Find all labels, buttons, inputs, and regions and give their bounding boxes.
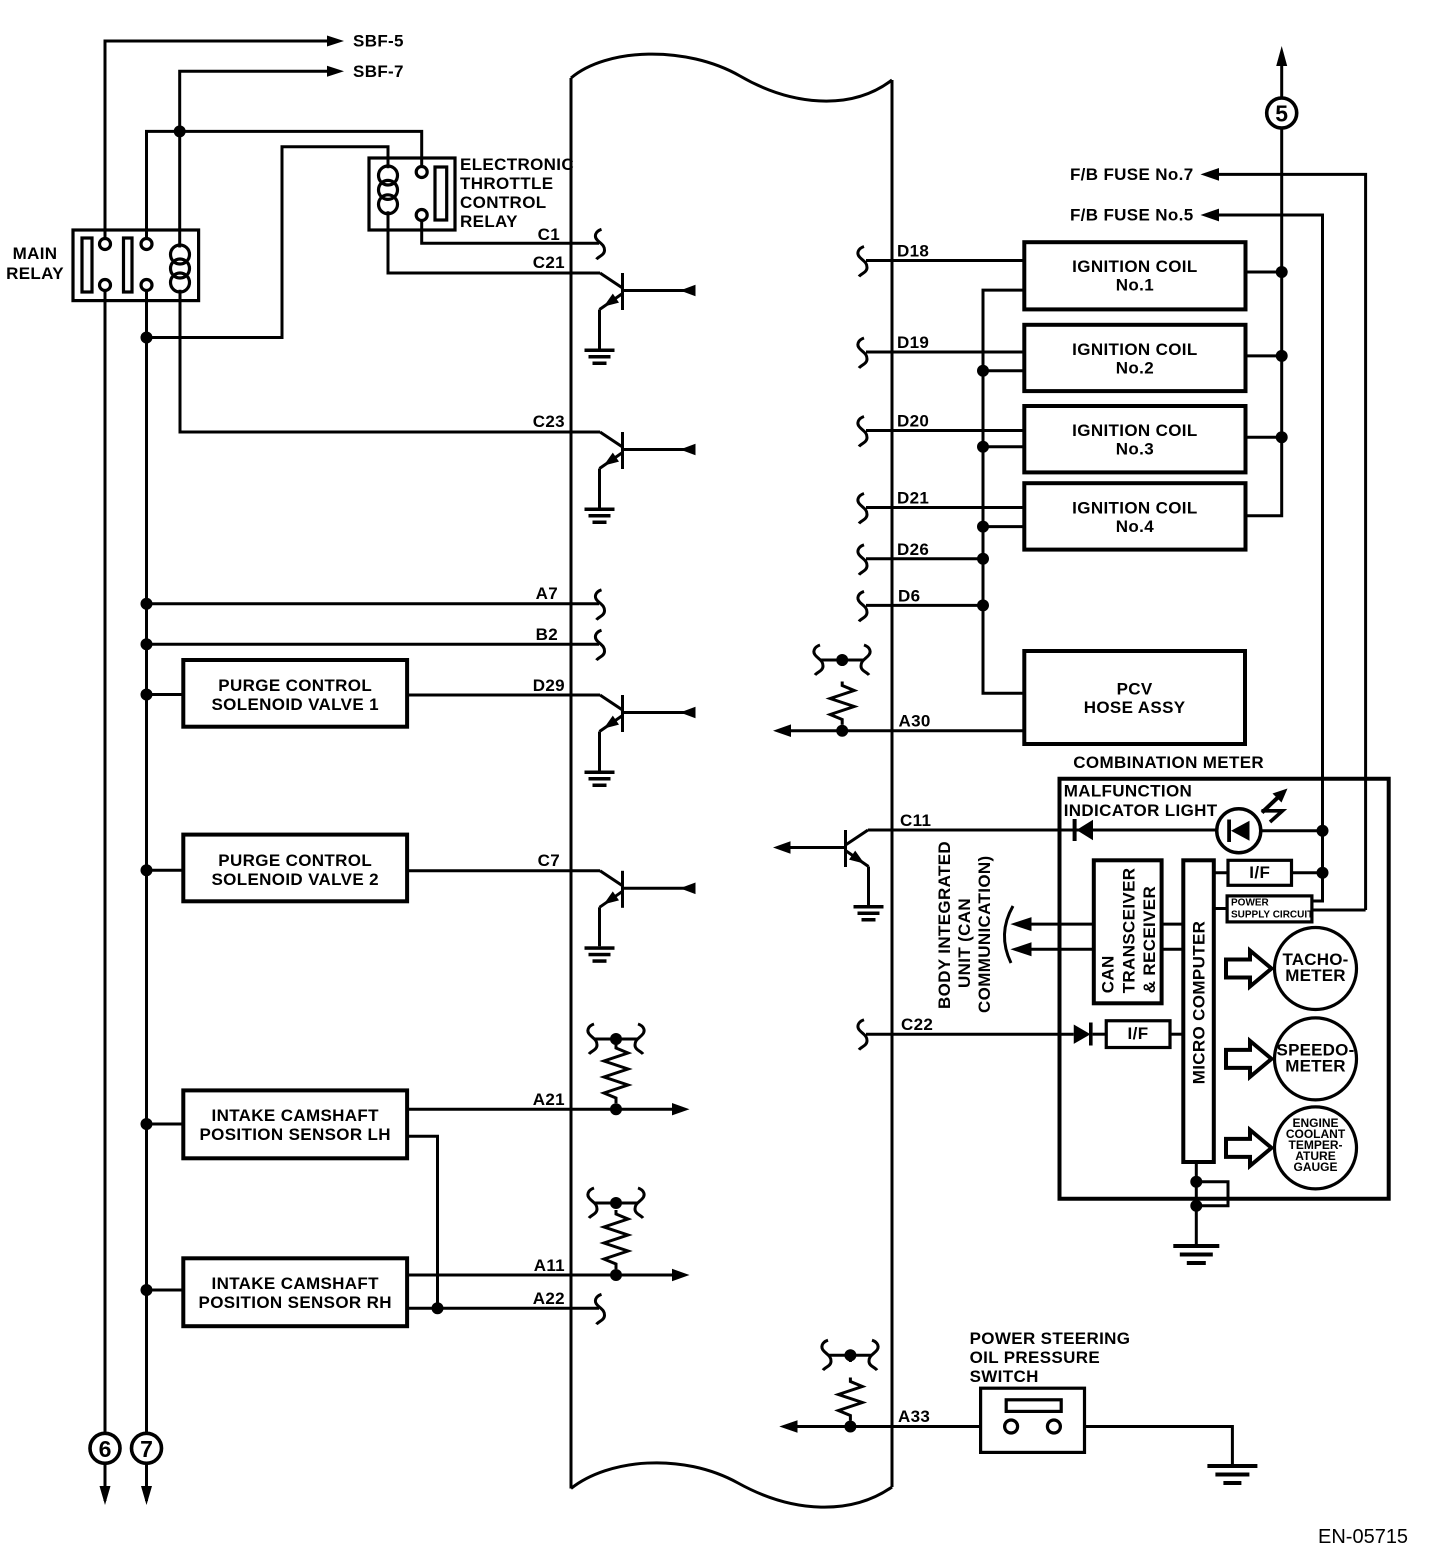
connector squiggle A21 left bbox=[588, 1024, 597, 1054]
wire coil3 output bbox=[1246, 436, 1282, 439]
svg-text:No.1: No.1 bbox=[1116, 276, 1154, 295]
wire coil2 output bbox=[1246, 354, 1282, 357]
ground of Q-C7 bbox=[585, 946, 615, 963]
junction dot R-A33 top bbox=[844, 1349, 856, 1361]
connector squiggle A30 right bbox=[861, 645, 870, 675]
wire C22 bbox=[866, 1033, 1074, 1036]
arrow F/B FUSE No.5 bbox=[1201, 209, 1220, 222]
wire branch to ETC relay coil bbox=[147, 147, 389, 338]
wire camshaft LH second output bbox=[407, 1136, 437, 1308]
pin switch right bbox=[1047, 1420, 1060, 1433]
box PURGE CONTROL SOLENOID VALVE 2 bbox=[183, 835, 407, 902]
junction dot coil2 common bbox=[977, 365, 989, 377]
svg-text:UNIT (CAN: UNIT (CAN bbox=[955, 898, 974, 988]
svg-text:POWER: POWER bbox=[1231, 898, 1270, 909]
svg-text:B2: B2 bbox=[536, 625, 558, 644]
wire F/B FUSE No.5 bbox=[1218, 215, 1323, 831]
box PURGE CONTROL SOLENOID VALVE 1 bbox=[183, 660, 407, 727]
wire coil common feed bbox=[983, 290, 1024, 693]
arrow CAN low bbox=[1010, 942, 1031, 956]
svg-text:C21: C21 bbox=[533, 253, 565, 272]
connector squiggle C1 bbox=[595, 229, 604, 259]
junction dot coil2 bus bbox=[1276, 350, 1288, 362]
svg-text:No.3: No.3 bbox=[1116, 440, 1154, 459]
wire diode to I/F bbox=[1093, 1033, 1107, 1036]
wire D19 bbox=[866, 351, 1024, 354]
wire to camshaft sensor LH bbox=[147, 1123, 184, 1126]
junction dot node SBF-7/coil bbox=[174, 125, 186, 137]
wire supply down to power circuit bbox=[1312, 873, 1323, 901]
junction dot D26 bbox=[977, 553, 989, 565]
svg-text:POWER STEERING: POWER STEERING bbox=[970, 1329, 1131, 1348]
ground of Q-C11 bbox=[854, 905, 884, 922]
svg-text:SWITCH: SWITCH bbox=[970, 1367, 1039, 1386]
wire R-A30 top bar bbox=[821, 660, 863, 666]
wire R-A11 top bar bbox=[595, 1202, 637, 1205]
wire CAN to microcomputer upper bbox=[1162, 923, 1184, 926]
wire CAN to microcomputer lower bbox=[1162, 948, 1184, 951]
wire A21 bbox=[407, 1108, 673, 1111]
box INTAKE CAMSHAFT POSITION SENSOR LH bbox=[183, 1090, 407, 1158]
svg-text:SBF-5: SBF-5 bbox=[353, 32, 404, 51]
arrow A30 out bbox=[773, 724, 791, 737]
junction dot micro ground upper bbox=[1190, 1176, 1202, 1188]
wire B2 bbox=[147, 643, 600, 646]
pin main relay top-right bbox=[141, 239, 152, 250]
junction dot R-A21 top bbox=[610, 1033, 622, 1045]
wire A33 bbox=[797, 1425, 981, 1428]
junction dot A21 pull-up bbox=[610, 1103, 622, 1115]
junction dot coil3 bus bbox=[1276, 431, 1288, 443]
gauge TACHOMETER bbox=[1275, 928, 1357, 1010]
box MICRO COMPUTER bbox=[1183, 860, 1214, 1162]
relay MAIN RELAY box bbox=[73, 230, 199, 301]
svg-text:D29: D29 bbox=[533, 676, 565, 695]
resistor R-A33 bbox=[838, 1378, 862, 1421]
diode C22 input bbox=[1074, 1023, 1093, 1046]
svg-text:CONTROL: CONTROL bbox=[460, 193, 547, 212]
wire D26 bbox=[866, 557, 983, 560]
wire below circle 6 bbox=[104, 1463, 107, 1501]
junction dot MIL supply bbox=[1317, 825, 1329, 837]
box CAN TRANSCEIVER and RECEIVER bbox=[1094, 860, 1162, 1003]
wire switch to ground bbox=[1085, 1427, 1233, 1465]
ground of Q-D29 bbox=[585, 771, 615, 788]
svg-text:IGNITION COIL: IGNITION COIL bbox=[1072, 499, 1197, 518]
svg-text:I/F: I/F bbox=[1249, 863, 1270, 882]
connector squiggle D21 bbox=[858, 494, 867, 524]
connector squiggle D6 bbox=[858, 591, 867, 621]
contact plate of switch bbox=[1006, 1400, 1061, 1412]
block arrow to speedometer bbox=[1226, 1041, 1272, 1077]
box power steering oil pressure switch bbox=[981, 1388, 1085, 1452]
diode D-MIL bbox=[1073, 819, 1093, 841]
connector squiggle A30 left bbox=[814, 645, 823, 675]
svg-text:CAN: CAN bbox=[1099, 955, 1118, 993]
arrow terminal 5 bbox=[1276, 46, 1287, 66]
wire to camshaft sensor RH bbox=[147, 1289, 184, 1292]
wire A11 bbox=[407, 1274, 673, 1277]
pin main relay bottom-right bbox=[141, 280, 152, 291]
svg-text:RELAY: RELAY bbox=[460, 212, 518, 231]
svg-text:F/B FUSE No.5: F/B FUSE No.5 bbox=[1070, 206, 1194, 225]
wire CAN high bbox=[1030, 923, 1094, 926]
flash arrow of MIL LED bbox=[1262, 789, 1288, 823]
connector squiggle D18 bbox=[858, 247, 867, 277]
svg-text:METER: METER bbox=[1285, 1057, 1346, 1076]
connector squiggle A22 bbox=[595, 1294, 604, 1324]
junction dot coil4 common bbox=[977, 521, 989, 533]
wire A7 bbox=[147, 602, 600, 605]
transistor Q-C23 bbox=[600, 432, 696, 508]
relay ELECTRONIC THROTTLE CONTROL RELAY box bbox=[369, 158, 455, 230]
ECM torn bottom edge bbox=[571, 1463, 892, 1507]
svg-text:C1: C1 bbox=[538, 225, 560, 244]
resistor R-A11 bbox=[604, 1210, 628, 1269]
wire CAN low bbox=[1030, 948, 1094, 951]
junction dot A22 bbox=[432, 1302, 444, 1314]
resistor R-A30 bbox=[830, 682, 854, 725]
junction dot D6 bbox=[977, 599, 989, 611]
svg-text:SBF-7: SBF-7 bbox=[353, 62, 404, 81]
terminal circle 5 bbox=[1267, 98, 1297, 128]
pin main relay bottom-left bbox=[100, 280, 111, 291]
arrow terminal 6 bbox=[100, 1486, 111, 1505]
svg-text:D19: D19 bbox=[897, 333, 929, 352]
wire main relay coil top bbox=[178, 131, 181, 247]
svg-text:A30: A30 bbox=[899, 712, 931, 731]
wire ground bypass loop bbox=[1196, 1182, 1228, 1206]
contact bar 2 of main relay bbox=[124, 238, 133, 292]
box IGNITION COIL No.3 bbox=[1024, 406, 1245, 472]
svg-text:& RECEIVER: & RECEIVER bbox=[1140, 886, 1159, 993]
wire D18 bbox=[866, 259, 1024, 262]
rotated label BODY INTEGRATED UNIT (CAN COMMUNICATION) bbox=[935, 841, 994, 1013]
transistor Q-C7 bbox=[600, 871, 696, 947]
wire ETC contact to C1 bbox=[422, 221, 599, 244]
wire coil3 common stub bbox=[983, 445, 1024, 448]
wire ETC coil bottom to C21 bbox=[388, 211, 600, 273]
box I/F left bbox=[1106, 1021, 1170, 1048]
box I/F top bbox=[1228, 860, 1292, 885]
connector squiggle A11 right bbox=[635, 1188, 644, 1218]
svg-text:MALFUNCTION: MALFUNCTION bbox=[1064, 782, 1193, 801]
svg-text:F/B FUSE No.7: F/B FUSE No.7 bbox=[1070, 165, 1194, 184]
wire micro to I/F top bbox=[1214, 871, 1228, 874]
svg-text:PURGE CONTROL: PURGE CONTROL bbox=[218, 676, 372, 695]
contact bar of ETC relay bbox=[435, 167, 447, 220]
svg-text:IGNITION COIL: IGNITION COIL bbox=[1072, 340, 1197, 359]
wire A30 bbox=[790, 729, 1024, 732]
junction dot R-A30 top bbox=[836, 654, 848, 666]
arrow A11 into ECM bbox=[672, 1269, 690, 1281]
svg-text:C23: C23 bbox=[533, 412, 565, 431]
svg-text:GAUGE: GAUGE bbox=[1293, 1160, 1337, 1174]
svg-text:7: 7 bbox=[140, 1436, 153, 1462]
wire R-A33 top bar bbox=[829, 1355, 871, 1362]
svg-text:C7: C7 bbox=[538, 851, 560, 870]
arrow terminal 7 bbox=[141, 1486, 152, 1505]
wire main relay pin3 down to circle 6 bbox=[104, 291, 107, 1434]
svg-text:D18: D18 bbox=[897, 242, 929, 261]
junction dot purge valve 2 bbox=[141, 864, 153, 876]
wire D6 bbox=[866, 604, 983, 607]
rotated label CAN TRANSCEIVER and RECEIVER bbox=[1099, 868, 1160, 994]
svg-text:POSITION SENSOR RH: POSITION SENSOR RH bbox=[199, 1293, 392, 1312]
arrow F/B FUSE No.7 bbox=[1201, 168, 1220, 181]
svg-text:TRANSCEIVER: TRANSCEIVER bbox=[1120, 868, 1139, 994]
svg-text:POSITION SENSOR LH: POSITION SENSOR LH bbox=[199, 1125, 390, 1144]
ECM torn top edge bbox=[571, 54, 892, 101]
wire SBF-7 feed bbox=[180, 71, 336, 131]
svg-text:BODY INTEGRATED: BODY INTEGRATED bbox=[935, 841, 954, 1009]
svg-text:5: 5 bbox=[1275, 101, 1288, 127]
wire terminal 5 stem bbox=[1280, 52, 1283, 98]
junction dot coil1 bus bbox=[1276, 266, 1288, 278]
svg-text:INTAKE CAMSHAFT: INTAKE CAMSHAFT bbox=[212, 1274, 380, 1293]
arrow SBF-7 bbox=[327, 66, 344, 77]
svg-text:IGNITION COIL: IGNITION COIL bbox=[1072, 421, 1197, 440]
connector squiggle C22 bbox=[858, 1020, 867, 1050]
junction dot A33 pull-up bbox=[844, 1421, 856, 1433]
wire power circuit to F/B7 line bbox=[1312, 909, 1366, 912]
svg-text:INDICATOR LIGHT: INDICATOR LIGHT bbox=[1064, 801, 1218, 820]
svg-text:HOSE ASSY: HOSE ASSY bbox=[1084, 698, 1186, 717]
junction dot micro ground lower bbox=[1190, 1200, 1202, 1212]
connector squiggle D19 bbox=[858, 338, 867, 368]
svg-text:OIL PRESSURE: OIL PRESSURE bbox=[970, 1348, 1100, 1367]
svg-text:RELAY: RELAY bbox=[6, 264, 64, 283]
transistor Q-D29 bbox=[600, 695, 696, 771]
svg-text:A11: A11 bbox=[534, 1256, 565, 1275]
svg-text:D6: D6 bbox=[898, 586, 920, 605]
wire to purge valve 1 bbox=[147, 693, 184, 696]
wire to purge valve 2 bbox=[147, 869, 184, 872]
svg-text:THROTTLE: THROTTLE bbox=[460, 174, 553, 193]
junction dot ETC coil branch bbox=[141, 332, 153, 344]
wire ignition supply bus bbox=[1280, 128, 1283, 272]
svg-text:PURGE CONTROL: PURGE CONTROL bbox=[218, 851, 372, 870]
wire coil4 common stub bbox=[983, 525, 1024, 528]
terminal circle 7 bbox=[132, 1433, 162, 1463]
svg-text:A22: A22 bbox=[533, 1289, 565, 1308]
svg-text:SUPPLY CIRCUIT: SUPPLY CIRCUIT bbox=[1231, 910, 1313, 921]
svg-text:D20: D20 bbox=[897, 412, 929, 431]
arc CAN bus bbox=[1004, 906, 1013, 963]
junction dot I/F supply bbox=[1317, 867, 1329, 879]
svg-text:6: 6 bbox=[99, 1436, 112, 1462]
svg-text:D26: D26 bbox=[897, 540, 929, 559]
svg-text:IGNITION COIL: IGNITION COIL bbox=[1072, 257, 1197, 276]
pin main relay top-left bbox=[100, 239, 111, 250]
wire main relay pin2 to ETC relay contact bbox=[147, 131, 422, 238]
svg-text:No.4: No.4 bbox=[1116, 517, 1154, 536]
block arrow to temperature gauge bbox=[1226, 1130, 1272, 1166]
resistor R-A21 bbox=[604, 1044, 628, 1103]
coil of main relay (3 loops) bbox=[171, 245, 190, 292]
wire I/F top to supply bbox=[1292, 831, 1323, 873]
ground of combination meter bbox=[1173, 1244, 1219, 1265]
box IGNITION COIL No.4 bbox=[1024, 483, 1245, 549]
wire main relay pin4 down bbox=[145, 291, 148, 1434]
gauge SPEEDOMETER bbox=[1275, 1018, 1357, 1100]
wire micro to power supply circuit bbox=[1214, 907, 1227, 910]
connector squiggle A33 right bbox=[869, 1340, 878, 1370]
arrow SBF-5 bbox=[327, 36, 344, 47]
pin ETC relay top bbox=[416, 167, 427, 178]
svg-text:C22: C22 bbox=[901, 1015, 933, 1034]
junction dot A11 pull-up bbox=[610, 1269, 622, 1281]
junction dot A30 pull-up bbox=[836, 725, 848, 737]
ground of Q-C21 bbox=[585, 349, 615, 366]
svg-text:MAIN: MAIN bbox=[13, 244, 58, 263]
box PCV HOSE ASSY bbox=[1024, 651, 1245, 744]
LED MIL lamp bbox=[1217, 809, 1261, 853]
connector squiggle A7 bbox=[595, 590, 604, 620]
connector squiggle B2 bbox=[595, 630, 604, 660]
wire main relay coil bottom to C23 bbox=[180, 290, 600, 432]
arrow CAN high bbox=[1010, 917, 1031, 931]
svg-text:I/F: I/F bbox=[1128, 1024, 1149, 1043]
svg-text:SOLENOID VALVE 1: SOLENOID VALVE 1 bbox=[211, 695, 378, 714]
arrow A33 out bbox=[779, 1420, 797, 1433]
svg-text:No.2: No.2 bbox=[1116, 359, 1154, 378]
wire below circle 7 bbox=[145, 1463, 148, 1501]
wire A22 bbox=[407, 1307, 599, 1310]
pin switch left bbox=[1005, 1420, 1018, 1433]
box POWER SUPPLY CIRCUIT bbox=[1227, 896, 1312, 922]
ground of Q-C23 bbox=[585, 508, 615, 525]
wire I/F left to micro bbox=[1170, 1033, 1183, 1036]
connector squiggle A21 right bbox=[635, 1024, 644, 1054]
svg-text:METER: METER bbox=[1285, 966, 1346, 985]
svg-text:D21: D21 bbox=[897, 489, 929, 508]
junction dot purge valve 1 bbox=[141, 689, 153, 701]
arrow A21 into ECM bbox=[672, 1103, 690, 1115]
wire MIL to supply bbox=[1261, 829, 1323, 832]
connector squiggle A33 left bbox=[822, 1340, 831, 1370]
svg-text:A21: A21 bbox=[533, 1090, 565, 1109]
transistor Q-C21 bbox=[600, 273, 696, 349]
ECM left edge bbox=[570, 78, 573, 1489]
junction dot B2 bbox=[141, 638, 153, 650]
wire R-A21 top bar bbox=[595, 1038, 637, 1041]
svg-text:COMBINATION METER: COMBINATION METER bbox=[1073, 753, 1264, 772]
svg-text:EN-05715: EN-05715 bbox=[1318, 1526, 1408, 1548]
ECM right edge bbox=[891, 80, 894, 1487]
connector squiggle D26 bbox=[858, 545, 867, 575]
wire D21 bbox=[866, 506, 1024, 509]
box INTAKE CAMSHAFT POSITION SENSOR RH bbox=[183, 1258, 407, 1326]
svg-text:A33: A33 bbox=[898, 1407, 930, 1426]
gauge ENGINE COOLANT TEMPERATURE GAUGE bbox=[1275, 1107, 1357, 1189]
svg-text:SOLENOID VALVE 2: SOLENOID VALVE 2 bbox=[211, 870, 378, 889]
wire C11 to MIL bbox=[868, 829, 1217, 832]
transistor Q-C11 (MIL driver) bbox=[773, 830, 869, 905]
junction dot coil3 common bbox=[977, 441, 989, 453]
connector squiggle D20 bbox=[858, 417, 867, 447]
svg-text:PCV: PCV bbox=[1117, 680, 1153, 699]
contact bar 1 of main relay bbox=[82, 238, 92, 292]
wire coil2 common stub bbox=[983, 369, 1024, 372]
junction dot camshaft sensor LH bbox=[141, 1118, 153, 1130]
box COMBINATION METER bbox=[1060, 779, 1389, 1199]
ground of switch bbox=[1207, 1464, 1257, 1485]
svg-text:MICRO COMPUTER: MICRO COMPUTER bbox=[1190, 921, 1209, 1085]
terminal circle 6 bbox=[90, 1433, 120, 1463]
svg-text:C11: C11 bbox=[900, 811, 931, 830]
wire ignition bus down bbox=[1246, 272, 1282, 516]
block arrow to tachometer bbox=[1226, 951, 1272, 987]
coil of ETC relay (3 loops) bbox=[379, 166, 398, 214]
pin ETC relay bottom bbox=[416, 210, 427, 221]
wire F/B FUSE No.7 bbox=[1218, 174, 1366, 910]
wire micro ground stub bbox=[1195, 1162, 1198, 1244]
svg-text:INTAKE CAMSHAFT: INTAKE CAMSHAFT bbox=[212, 1106, 380, 1125]
junction dot camshaft sensor RH bbox=[141, 1284, 153, 1296]
junction dot A7 bbox=[141, 598, 153, 610]
svg-text:A7: A7 bbox=[536, 584, 558, 603]
wire SBF-5 feed bbox=[105, 41, 336, 239]
box IGNITION COIL No.2 bbox=[1024, 325, 1245, 391]
connector squiggle A11 left bbox=[588, 1188, 597, 1218]
svg-text:COMMUNICATION): COMMUNICATION) bbox=[975, 855, 994, 1013]
svg-text:ELECTRONIC: ELECTRONIC bbox=[460, 155, 574, 174]
wire D29 bbox=[407, 694, 600, 697]
wire C7 bbox=[407, 869, 600, 872]
box IGNITION COIL No.1 bbox=[1024, 242, 1245, 309]
wire coil1 output bbox=[1246, 271, 1282, 274]
junction dot R-A11 top bbox=[610, 1197, 622, 1209]
wire D20 bbox=[866, 429, 1024, 432]
